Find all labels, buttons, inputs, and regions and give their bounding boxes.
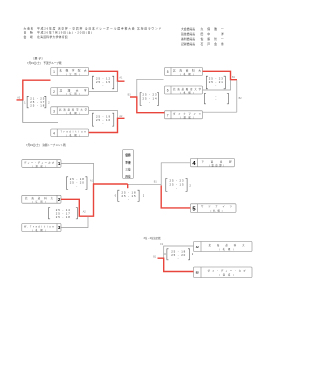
- wire grey: M3 to step match junction: [61, 216, 88, 227]
- team box A2: [51, 88, 89, 96]
- team box M4: [190, 159, 234, 168]
- score bracket right semifinal: [166, 178, 192, 191]
- wire grey: right semifinal winner to final: [128, 183, 162, 185]
- svg-text:競技委員長: 競技委員長: [181, 32, 195, 36]
- score bracket match A-1: [92, 76, 113, 89]
- score bracket group A final: [24, 96, 50, 108]
- team box N2: [194, 267, 253, 278]
- svg-text:大会委員長: 大会委員長: [181, 27, 195, 31]
- svg-text:平成26年7月19日(土)・20日(日): 平成26年7月19日(土)・20日(日): [37, 31, 93, 35]
- svg-text:ディー・ディーカプ: ディー・ディーカプ: [24, 161, 55, 165]
- team box M5: [190, 204, 236, 213]
- score bracket 3rd place match: [164, 249, 194, 260]
- wire red: M5 winner up right semifinal: [161, 186, 190, 208]
- svg-text:4: 4: [53, 132, 55, 136]
- svg-text:優勝: 優勝: [124, 153, 131, 157]
- svg-text:四位: 四位: [125, 175, 131, 179]
- wire red: B3 winner through group B final: [130, 97, 165, 113]
- team box B2: [165, 86, 203, 94]
- svg-text:記録委員長: 記録委員長: [181, 42, 195, 46]
- team box N1: [194, 242, 253, 252]
- wire grey: B2 to match B-1 junction: [203, 80, 231, 90]
- svg-text:6: 6: [167, 89, 169, 93]
- wire grey: A2 to match A-1 junction: [89, 81, 118, 91]
- team box M2: [22, 195, 61, 203]
- svg-text:〔男 子〕: 〔男 子〕: [32, 56, 45, 61]
- team box M3: [22, 224, 61, 232]
- svg-text:1: 1: [53, 70, 55, 74]
- svg-text:7月19日(土) 予選グループ戦: 7月19日(土) 予選グループ戦: [27, 61, 62, 65]
- svg-text:2: 2: [53, 90, 55, 94]
- wire red: N2 winner through 3rd place match: [158, 258, 194, 271]
- svg-text:-: -: [176, 186, 177, 190]
- score bracket match A-2: [92, 113, 113, 126]
- wire grey: match B-1 winner relay down: [236, 80, 238, 112]
- score bracket consolation (unplayed): [204, 93, 228, 104]
- wire grey: M1 to semifinal junction: [61, 163, 94, 184]
- svg-text:三位: 三位: [125, 168, 131, 172]
- svg-text:北海道科学大学体育館: 北海道科学大学体育館: [37, 35, 68, 39]
- svg-text:25 - 18: 25 - 18: [56, 215, 70, 219]
- team box A3: [51, 107, 89, 115]
- score bracket step match: [49, 208, 78, 219]
- svg-text:-: -: [128, 197, 129, 201]
- wire grey: A3 to match A-2 junction: [89, 111, 118, 119]
- score bracket match B-1: [206, 76, 225, 89]
- svg-text:審判委員長: 審判委員長: [181, 37, 195, 41]
- wire red: group A final top slot and winner stub: [17, 80, 51, 100]
- wire grey: N1 to 3rd place junction: [164, 246, 194, 258]
- svg-text:佐藤智一: 佐藤智一: [201, 37, 228, 41]
- score bracket group B final: [140, 93, 159, 106]
- wire red: A4 winner to match A-2 junction: [89, 118, 125, 132]
- svg-text:-: -: [102, 121, 103, 125]
- score bracket semifinal left: [67, 177, 88, 190]
- team box M1: [22, 160, 61, 168]
- wire grey: B3 line to consolation: [203, 111, 237, 113]
- wire red: champion stub at grand final: [127, 184, 129, 188]
- svg-text:久保雅一: 久保雅一: [201, 27, 228, 31]
- svg-text:ダイ・ディー・カプ: ダイ・ディー・カプ: [208, 269, 247, 273]
- wire red: B1 winner to match B-1 junction: [203, 71, 238, 79]
- svg-text:5: 5: [167, 70, 169, 74]
- team box B3: [165, 111, 203, 119]
- svg-text:準優: 準優: [125, 160, 131, 164]
- wire red: M2 winner down through step match up to final: [61, 184, 128, 216]
- svg-text:大 会 名: 大 会 名: [24, 26, 34, 30]
- svg-text:-: -: [76, 184, 77, 188]
- svg-text:石戸会重: 石戸会重: [201, 42, 228, 46]
- svg-text:-: -: [215, 98, 216, 102]
- legend box: results: [123, 150, 134, 179]
- svg-text:7月19日(土) 決勝トーナメント戦: 7月19日(土) 決勝トーナメント戦: [26, 143, 66, 147]
- wire grey: M4 to right semifinal junction: [161, 163, 190, 186]
- svg-text:-: -: [102, 83, 103, 87]
- svg-text:平成26年度 天皇杯・皇后杯 全日本バレーボール選手権大会: 平成26年度 天皇杯・皇后杯 全日本バレーボール選手権大会 北海道ラウンド: [37, 26, 162, 30]
- header right: officials: [181, 27, 228, 46]
- svg-text:日 時: 日 時: [24, 31, 33, 35]
- svg-text:3: 3: [53, 109, 55, 113]
- svg-text:田中 洋: 田中 洋: [201, 32, 228, 36]
- team box A4: [51, 129, 89, 137]
- svg-text:3位・4位決定戦: 3位・4位決定戦: [144, 236, 162, 240]
- team box B1: [165, 68, 203, 76]
- wire grey: group A final bottom slot: [23, 100, 58, 123]
- svg-text:25 - 18: 25 - 18: [30, 104, 44, 108]
- svg-text:-: -: [149, 100, 150, 104]
- wire grey: group B final top slot: [137, 79, 164, 97]
- svg-text:-: -: [178, 256, 179, 260]
- wire red: A1 winner to match A-1 junction: [89, 71, 125, 81]
- svg-text:-: -: [215, 83, 216, 87]
- score bracket grand final: [115, 190, 145, 201]
- header left: meta info lines: [24, 26, 163, 39]
- svg-text:会 場: 会 場: [24, 35, 33, 39]
- team box A1: [51, 68, 89, 76]
- svg-text:7: 7: [167, 114, 169, 118]
